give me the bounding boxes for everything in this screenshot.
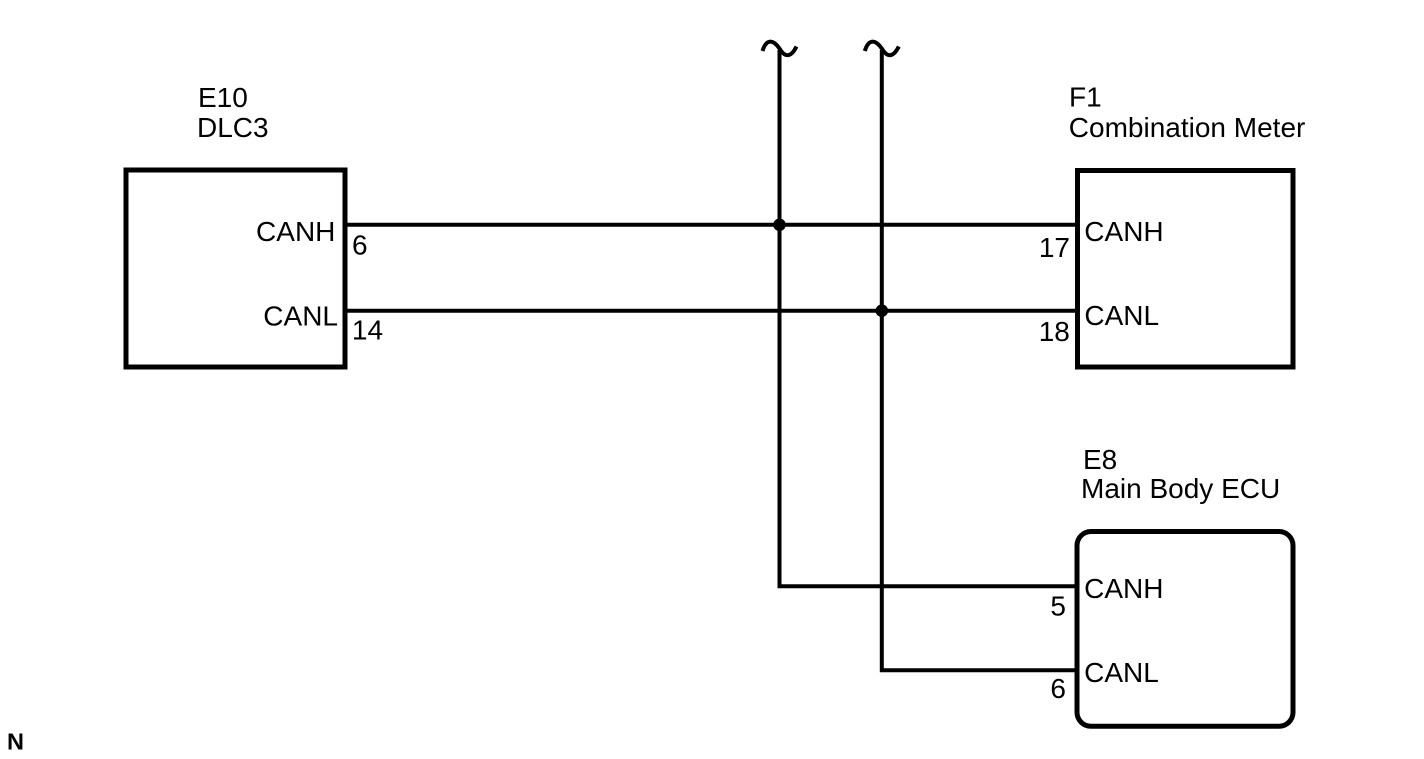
svg-text:CANL: CANL <box>263 300 338 331</box>
wire break symbol (tilde) CANL <box>865 42 899 56</box>
svg-text:6: 6 <box>352 229 368 260</box>
svg-text:18: 18 <box>1039 316 1070 347</box>
connector F1 Combination Meter box <box>1078 171 1294 368</box>
wire CANL branch vertical to E8 <box>882 50 1078 670</box>
wire break symbol (tilde) CANH <box>763 42 797 56</box>
wire CANL E10 to F1 <box>345 309 1078 313</box>
svg-text:Main Body ECU: Main Body ECU <box>1081 473 1280 504</box>
svg-text:17: 17 <box>1039 232 1070 263</box>
svg-text:N: N <box>7 729 24 755</box>
ECU E8 Main Body ECU box <box>1077 532 1293 727</box>
wire CANH E10 to F1 <box>345 223 1078 227</box>
connector E10 DLC3 box <box>126 170 345 367</box>
junction dot CANH <box>773 219 786 232</box>
svg-text:E10: E10 <box>198 82 248 113</box>
wire CANH branch vertical to E8 <box>780 50 1079 586</box>
svg-text:CANL: CANL <box>1084 657 1159 688</box>
svg-text:CANL: CANL <box>1084 300 1159 331</box>
svg-text:Combination Meter: Combination Meter <box>1069 112 1306 143</box>
svg-text:CANH: CANH <box>1084 216 1163 247</box>
svg-text:6: 6 <box>1050 673 1066 704</box>
junction dot CANL <box>876 304 889 317</box>
svg-text:5: 5 <box>1050 590 1066 621</box>
svg-text:DLC3: DLC3 <box>197 112 269 143</box>
svg-text:CANH: CANH <box>256 216 335 247</box>
svg-text:E8: E8 <box>1083 444 1117 475</box>
svg-text:CANH: CANH <box>1084 573 1163 604</box>
svg-text:14: 14 <box>352 315 383 346</box>
svg-text:F1: F1 <box>1069 82 1102 113</box>
